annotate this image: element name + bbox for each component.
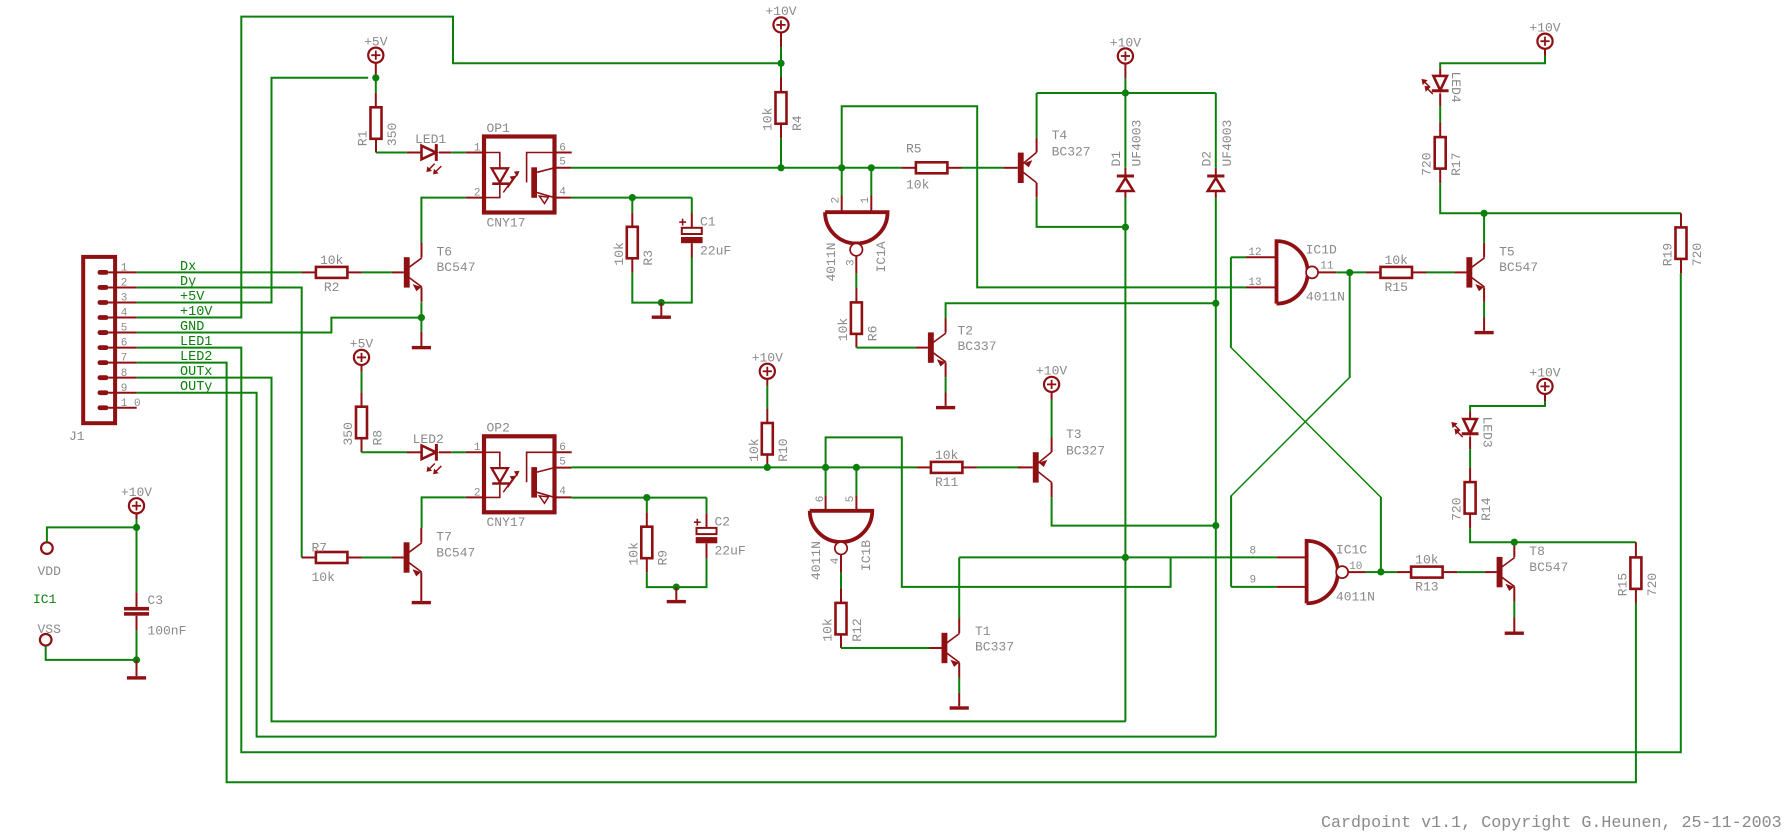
svg-text:LED2: LED2 [413, 432, 444, 447]
svg-text:+5V: +5V [180, 290, 205, 305]
J1 pad/lead pin 3 [98, 300, 109, 305]
svg-text:UF4003: UF4003 [1220, 120, 1235, 167]
ground [1513, 618, 1515, 632]
svg-text:13: 13 [1248, 277, 1261, 289]
IC1A input stubs [841, 168, 843, 196]
power +10V [1537, 34, 1552, 49]
R8 bottom lead [361, 438, 363, 452]
LED1 cathode lead [439, 152, 451, 154]
resistor R16 [1381, 267, 1413, 278]
svg-text:BC547: BC547 [1529, 560, 1568, 575]
J1 pad/lead pin 2 [98, 285, 109, 290]
D1 top lead wire [1124, 93, 1126, 168]
R17 bottom lead [1439, 169, 1441, 184]
svg-text:10k: 10k [906, 178, 930, 193]
svg-text:12: 12 [1248, 247, 1261, 259]
junction D1 +10V [1122, 89, 1129, 96]
IC1D input 12 wire [1231, 256, 1246, 258]
wire IC1D out to IC1C.9 cross [1349, 273, 1351, 378]
svg-text:UF4003: UF4003 [1130, 120, 1145, 167]
svg-text:R1: R1 [356, 130, 371, 146]
wire R3 bottom to C1 bottom [632, 273, 692, 303]
wire OUTx J1 pin8 down to bottom rail [137, 378, 1126, 722]
junction OUTx IC1C.8 line [1122, 554, 1129, 561]
J1 pad/lead pin 6 [98, 345, 109, 350]
svg-text:IC1C: IC1C [1336, 542, 1367, 557]
ground [136, 660, 138, 676]
wire power to junction [780, 33, 782, 48]
R14 bottom lead [1469, 514, 1471, 529]
ground [660, 303, 662, 316]
svg-text:22uF: 22uF [700, 244, 731, 259]
svg-text:R15: R15 [1385, 280, 1408, 295]
svg-text:9: 9 [1250, 575, 1257, 587]
wire R11 to T3 base [977, 466, 1021, 468]
wire R7 to T7 base [362, 557, 392, 559]
svg-text:R17: R17 [1449, 152, 1464, 175]
R13 left lead [1397, 571, 1412, 573]
svg-text:R9: R9 [656, 550, 671, 566]
svg-text:10: 10 [1349, 561, 1362, 573]
svg-text:+5V: +5V [350, 337, 374, 352]
wire Dy J1 pin2 down to R7 [137, 287, 302, 557]
svg-text:2: 2 [474, 487, 481, 499]
nand gate IC1D [1277, 241, 1308, 304]
power +10V [1044, 377, 1059, 392]
IC1B input stubs [825, 467, 827, 495]
svg-text:10k: 10k [1415, 553, 1439, 568]
svg-text:5: 5 [559, 157, 566, 169]
wire R16 to T5 base [1427, 271, 1455, 273]
T8 emitter wire [1513, 602, 1515, 618]
resistor R5 [916, 162, 948, 173]
junction T5 collector [1481, 210, 1488, 217]
wire R1 to LED1 [376, 152, 407, 154]
T2 collector wire up/right to D2 column [946, 303, 1216, 318]
LED3 anode lead [1469, 411, 1471, 419]
LED4 anode lead [1439, 68, 1441, 76]
svg-text:350: 350 [385, 123, 400, 146]
svg-text:IC1: IC1 [33, 592, 57, 607]
svg-text:6: 6 [559, 442, 566, 454]
power +5V [354, 350, 369, 365]
R15 top lead [1635, 542, 1637, 557]
svg-text:7: 7 [121, 353, 128, 365]
wire IC1D out to junction [1336, 271, 1350, 273]
transistor T5 [1466, 257, 1472, 287]
svg-text:720: 720 [1690, 243, 1705, 266]
diode D1 [1117, 175, 1134, 178]
R19 bottom lead [1680, 259, 1682, 274]
nand gate IC1A [825, 212, 888, 243]
svg-text:720: 720 [1450, 497, 1465, 520]
wire R9 bottom to C2 bottom [647, 558, 707, 587]
junction D1 bottom [1122, 224, 1129, 231]
wire GND J1 pin5 to ground junction [137, 318, 422, 333]
resistor R10 [762, 423, 773, 455]
R13 right lead [1443, 571, 1458, 573]
resistor R12 [836, 603, 847, 635]
svg-text:C3: C3 [147, 593, 163, 608]
svg-text:2: 2 [474, 188, 481, 200]
resistor R4 [776, 92, 787, 124]
OP1 internal LED [484, 153, 500, 169]
T5 emitter wire [1483, 302, 1485, 318]
junction R10 [764, 464, 771, 471]
svg-text:GND: GND [180, 320, 204, 335]
capacitor C3 [124, 607, 149, 611]
transistor T3 [1033, 452, 1039, 482]
wire IC1C out to IC1D.12 cross [1230, 257, 1232, 347]
resistor R7 [316, 552, 348, 563]
wire R13 to T8 base [1457, 571, 1485, 573]
R12 bottom lead [840, 634, 842, 648]
wire LED2 to OP2 pin1 [451, 451, 466, 453]
D1/OUTx vertical [1124, 198, 1126, 722]
svg-text:R3: R3 [641, 250, 656, 266]
wire R6 to T2 base [856, 347, 916, 349]
svg-text:720: 720 [1420, 152, 1435, 175]
svg-text:4011N: 4011N [809, 541, 824, 580]
T1 emitter wire [958, 678, 960, 693]
R16 right lead [1412, 271, 1427, 273]
wire +10V from J1 pin4 up and over to R4 [137, 17, 781, 318]
power +10V [773, 17, 788, 32]
svg-text:VSS: VSS [38, 622, 62, 637]
svg-text:R7: R7 [312, 541, 328, 556]
svg-text:IC1D: IC1D [1306, 242, 1337, 257]
wire IC1C pin8 net [959, 556, 1276, 558]
optocoupler OP2 [484, 436, 555, 512]
svg-text:9: 9 [121, 383, 128, 395]
junction +10V R4 [777, 60, 784, 67]
wire IC1C out to junction [1366, 571, 1381, 573]
ground [420, 332, 422, 346]
svg-text:+10V: +10V [752, 351, 783, 366]
D2 bottom lead [1215, 191, 1217, 197]
svg-text:3: 3 [121, 293, 128, 305]
IC1B output stub [840, 555, 842, 573]
power +10V [1537, 379, 1552, 394]
D1 bottom lead [1124, 191, 1126, 197]
T4 collector wire down/right to D1 column [1037, 198, 1126, 227]
transistor T2 [928, 332, 934, 362]
svg-text:T7: T7 [436, 530, 452, 545]
power +10V [129, 498, 144, 513]
svg-text:6: 6 [559, 142, 566, 154]
svg-text:T2: T2 [958, 323, 974, 338]
svg-text:11: 11 [1320, 261, 1334, 273]
R6 bottom lead [855, 334, 857, 348]
svg-text:R19: R19 [1661, 243, 1676, 266]
svg-text:T4: T4 [1052, 128, 1068, 143]
power lead [1544, 394, 1546, 401]
LED LED2 [422, 446, 436, 460]
junction T6 emitter / GND [418, 314, 425, 321]
junction T3 collector line [1212, 522, 1219, 529]
svg-text:10k: 10k [821, 618, 836, 642]
svg-text:4: 4 [559, 486, 566, 498]
svg-text:350: 350 [341, 422, 356, 445]
junction R9 top [643, 494, 650, 501]
svg-text:BC547: BC547 [436, 545, 475, 560]
T8 collector wire to junction [1513, 541, 1515, 543]
svg-text:BC337: BC337 [975, 640, 1014, 655]
C2 top lead [706, 498, 708, 514]
J1 pad/lead pin 9 [98, 390, 109, 395]
junction IC1A pin2 [838, 164, 845, 171]
resistor R1 [371, 107, 382, 139]
svg-text:10k: 10k [1385, 253, 1409, 268]
wire IC1A out to R6 [855, 274, 857, 288]
junction IC1D out [1346, 269, 1353, 276]
svg-text:LED1: LED1 [415, 132, 446, 147]
connector J1 [83, 257, 115, 423]
LED4 cathode lead [1439, 93, 1441, 106]
nand gate IC1B [810, 511, 873, 542]
svg-text:CNY17: CNY17 [487, 515, 526, 530]
D2 top lead wire [1215, 93, 1217, 168]
svg-text:C1: C1 [700, 215, 716, 230]
resistor R11 [931, 462, 963, 473]
svg-text:OP2: OP2 [487, 421, 510, 436]
junction R4 on pin5 net [777, 164, 784, 171]
svg-text:+10V: +10V [180, 305, 213, 320]
OP1 internal phototransistor [527, 153, 555, 183]
svg-text:1: 1 [474, 442, 481, 454]
svg-text:Cardpoint v1.1, Copyright G.He: Cardpoint v1.1, Copyright G.Heunen, 25-1… [1321, 814, 1782, 832]
junction T2 collector line [1212, 300, 1219, 307]
OP2 internal LED [484, 452, 500, 468]
svg-text:8: 8 [1250, 545, 1257, 557]
svg-text:10k: 10k [612, 242, 627, 266]
wire R12 to T1 base [841, 647, 930, 649]
wire junction to R16 [1350, 271, 1366, 273]
wire OP2 pin5 net [572, 466, 917, 468]
svg-text:1: 1 [860, 197, 872, 204]
T6 emitter wire to GND junction [420, 302, 422, 317]
wire OP2 pin4 net [572, 497, 707, 499]
R9 top lead [646, 498, 648, 513]
svg-text:BC337: BC337 [958, 339, 997, 354]
wire VDD up to +10V junction [47, 527, 137, 542]
resistor R6 [851, 302, 862, 334]
J1 pad/lead pin 5 [98, 330, 109, 335]
wire LED1 to OP1 pin1 [451, 152, 466, 154]
svg-text:BC547: BC547 [1499, 260, 1538, 275]
resistor R2 [316, 267, 348, 278]
svg-text:4: 4 [559, 186, 566, 198]
svg-text:4011N: 4011N [1336, 589, 1375, 604]
J1 pad/lead pin 1 [98, 270, 109, 275]
C3 bottom lead [136, 616, 138, 631]
transistor T7 [404, 542, 410, 572]
capacitor C1 [682, 228, 702, 234]
svg-text:LED3: LED3 [1480, 417, 1495, 448]
junction IC1B pin6 [822, 464, 829, 471]
wire junction to R4 [780, 63, 782, 77]
C1 top lead [691, 198, 693, 213]
svg-text:BC327: BC327 [1066, 443, 1105, 458]
svg-text:1: 1 [474, 142, 481, 154]
junction IC1B pin5 [853, 464, 860, 471]
IC1A output stub [855, 256, 857, 274]
J1 pad/lead pin 8 [98, 375, 109, 380]
LED3 cathode lead [1469, 436, 1471, 449]
svg-text:C2: C2 [715, 515, 731, 530]
wire OUTy J1 pin9 down to bottom rail [137, 393, 1216, 737]
svg-text:R13: R13 [1415, 580, 1438, 595]
transistor T4 [1018, 153, 1024, 183]
C1 bottom lead [691, 243, 693, 257]
R4 bottom lead [780, 124, 782, 139]
R5 right lead [947, 167, 962, 169]
junction R3 top [629, 194, 636, 201]
svg-text:4: 4 [121, 308, 128, 320]
svg-text:22uF: 22uF [715, 544, 746, 559]
IC1C input stubs [1276, 556, 1306, 558]
wire R8 to LED2 [362, 451, 408, 453]
svg-text:2: 2 [831, 197, 843, 204]
junction +5V R1 [372, 74, 379, 81]
wire R2 to T6 base [362, 271, 392, 273]
wire OP1 pin2 to T6 collector [421, 198, 465, 244]
wire +10V rail over D1 D2 [1037, 92, 1216, 94]
power lead to R10 [766, 379, 768, 386]
R9 bottom lead [646, 558, 648, 573]
svg-text:10k: 10k [761, 107, 776, 131]
svg-text:5: 5 [559, 456, 566, 468]
R3 top lead [631, 198, 633, 213]
svg-text:OUTx: OUTx [180, 365, 212, 380]
svg-text:8: 8 [121, 368, 128, 380]
svg-text:+10V: +10V [1529, 21, 1560, 36]
R7 left lead [302, 557, 316, 559]
wire R17 to T5 collector and R19 [1440, 183, 1681, 213]
capacitor C2 [697, 528, 717, 534]
power lead [1544, 49, 1546, 56]
wire R5 to T4 base [962, 167, 1003, 169]
svg-text:+10V: +10V [1110, 35, 1141, 50]
svg-text:720: 720 [1645, 573, 1660, 596]
resistor R15 [1630, 557, 1641, 589]
C2 bottom lead [706, 543, 708, 558]
wire +10V to LED3 column [1470, 401, 1545, 411]
transistor T6 [404, 257, 410, 287]
junction ground C2 [673, 584, 680, 591]
R15 bottom lead [1635, 589, 1637, 604]
IC1D output stub [1318, 271, 1336, 273]
wire junction to R13 [1381, 571, 1397, 573]
junction IC1C out [1377, 568, 1384, 575]
power lead to R8 [361, 365, 363, 372]
T2 emitter wire [945, 377, 947, 392]
svg-text:+10V: +10V [1529, 366, 1560, 381]
svg-text:6: 6 [121, 338, 128, 350]
resistor R3 [627, 227, 638, 258]
junction IC1A pin1 [868, 164, 875, 171]
svg-text:LED4: LED4 [1448, 72, 1463, 103]
wire Dx J1 pin1 to R2 [137, 271, 302, 273]
LED LED1 [422, 146, 436, 160]
svg-text:Dy: Dy [180, 275, 196, 290]
resistor R14 [1465, 482, 1476, 513]
power +10V [760, 364, 775, 379]
wire junction to R1 [375, 78, 377, 93]
svg-text:Dx: Dx [180, 260, 196, 275]
nand gate IC1C [1307, 541, 1338, 604]
svg-text:T1: T1 [975, 624, 991, 639]
svg-text:+10V: +10V [121, 485, 152, 500]
LED2 lead [407, 451, 422, 453]
svg-text:10k: 10k [320, 253, 344, 268]
junction VDD C3 +10V [133, 524, 140, 531]
power lead [1051, 392, 1053, 400]
svg-text:BC547: BC547 [437, 260, 476, 275]
VSS pin [40, 634, 52, 646]
R7 right lead [347, 557, 362, 559]
optocoupler OP1 [484, 137, 555, 213]
R11 right lead [962, 466, 977, 468]
VDD pin [41, 542, 53, 554]
svg-text:10k: 10k [747, 438, 762, 462]
wire OP1 pin4 net [572, 197, 692, 199]
svg-text:10k: 10k [626, 542, 641, 566]
R5 left lead [901, 167, 916, 169]
wire VSS to junction [46, 646, 137, 660]
R16 left lead [1366, 271, 1381, 273]
svg-text:2: 2 [121, 278, 128, 290]
svg-text:R4: R4 [790, 115, 805, 131]
resistor R8 [356, 407, 367, 439]
svg-text:T8: T8 [1529, 544, 1545, 559]
power +5V [368, 48, 383, 63]
svg-text:R5: R5 [906, 142, 922, 157]
wire +5V from J1 pin3 up to R1 junction [137, 78, 369, 303]
svg-text:R11: R11 [935, 475, 959, 490]
wire OP2 pin2 to T7 collector [422, 497, 466, 528]
wire power to junction [375, 63, 377, 78]
wire IC1B.6 jog to IC1C.8 net [826, 437, 1171, 587]
svg-text:1: 1 [121, 263, 128, 275]
svg-text:T3: T3 [1066, 427, 1082, 442]
junction T8 collector [1511, 539, 1518, 546]
svg-text:5: 5 [845, 496, 857, 503]
svg-text:R14: R14 [1479, 497, 1494, 521]
svg-text:LED2: LED2 [180, 350, 212, 365]
svg-text:+5V: +5V [364, 35, 388, 50]
IC1C output stub [1348, 571, 1365, 573]
wire junction down to ground [420, 318, 422, 332]
svg-text:4011N: 4011N [824, 242, 839, 281]
wire LED4 to R17 [1439, 106, 1441, 123]
LED LED3 [1463, 419, 1477, 433]
ground [958, 693, 960, 706]
ground [420, 587, 422, 601]
T4 emitter wire up to +10V rail [1036, 93, 1038, 138]
svg-text:LED1: LED1 [180, 335, 212, 350]
junction VSS C3 GND [133, 656, 140, 663]
power lead to junction [1124, 64, 1126, 78]
svg-text:IC1A: IC1A [874, 241, 889, 272]
wire IC1B out to R12 [840, 573, 842, 589]
svg-text:+10V: +10V [1036, 364, 1067, 379]
junction ground C1 [658, 299, 665, 306]
ground [1483, 318, 1485, 331]
D2/OUTy vertical [1215, 198, 1217, 737]
svg-text:10k: 10k [836, 318, 851, 342]
svg-text:CNY17: CNY17 [487, 215, 526, 230]
